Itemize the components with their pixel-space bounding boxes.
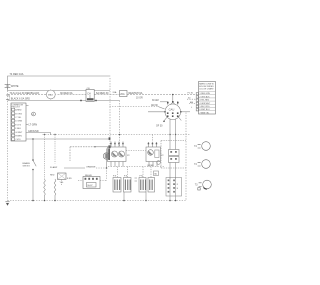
svg-text:J VIO: J VIO <box>15 139 21 141</box>
wire: LT GRN stub <box>26 124 28 126</box>
wire label 7A RED 10A <box>10 73 24 76</box>
svg-text:F N: F N <box>140 176 144 178</box>
regulator U3 <box>166 178 182 202</box>
wire label 10 OR <box>136 97 143 99</box>
svg-text:SW NO: SW NO <box>23 165 31 167</box>
wire: top red feed <box>8 76 111 91</box>
alternator M1 <box>46 89 57 100</box>
svg-text:MAG: MAG <box>48 94 53 97</box>
svg-text:RED: RED <box>50 175 55 177</box>
connector C2 <box>139 167 155 202</box>
wire: to brake switch <box>26 138 110 140</box>
svg-text:20A: 20A <box>120 93 125 96</box>
svg-text:WHITE: WHITE <box>11 85 19 88</box>
wire: vertical drop <box>109 78 111 146</box>
svg-text:F BLK: F BLK <box>15 128 21 130</box>
connector C1 <box>113 167 131 202</box>
battery label <box>11 85 19 88</box>
interlock module U1 <box>108 142 147 167</box>
svg-text:P1 30: P1 30 <box>188 93 194 95</box>
wire label <box>129 92 143 95</box>
svg-text:B ORG: B ORG <box>15 113 22 115</box>
svg-text:5 BLK ORG: 5 BLK ORG <box>200 106 211 108</box>
svg-text:AM 30: AM 30 <box>151 104 158 107</box>
diode M2 <box>103 149 109 169</box>
svg-text:LT GRN: LT GRN <box>29 124 38 127</box>
svg-text:RED/WH 6A: RED/WH 6A <box>129 92 143 95</box>
wire: second feed <box>8 90 111 92</box>
wire: ground run <box>26 133 51 136</box>
wire: harness dashed box right <box>161 141 186 169</box>
wire: dashed harness feed <box>8 94 47 96</box>
svg-text:CAU: CAU <box>169 108 175 112</box>
svg-text:OF 30: OF 30 <box>156 125 163 127</box>
wire: solenoid K1 stub <box>61 180 63 186</box>
svg-text:D GRN: D GRN <box>15 121 22 123</box>
junction block <box>108 145 110 148</box>
key switch S1 <box>148 94 190 122</box>
svg-text:30 AMP: 30 AMP <box>50 166 58 169</box>
fuse F2 <box>154 171 159 176</box>
wire: table stub <box>26 105 29 107</box>
svg-text:A: A <box>32 112 34 116</box>
svg-text:4 GRN WHT: 4 GRN WHT <box>200 103 211 105</box>
junction <box>80 100 82 102</box>
svg-text:30 AM: 30 AM <box>152 99 159 102</box>
svg-text:G WHT: G WHT <box>15 132 23 134</box>
legend connector J2 <box>188 82 216 115</box>
wire label B RED <box>148 165 155 167</box>
svg-text:A RED: A RED <box>15 109 22 112</box>
svg-text:CH: CH <box>87 94 91 96</box>
svg-text:6A RED 30: 6A RED 30 <box>96 92 109 95</box>
relay K2 <box>78 168 107 189</box>
fuel solenoid K1 <box>50 166 72 180</box>
svg-text:2 BLACK 6 GA GRD: 2 BLACK 6 GA GRD <box>9 97 30 100</box>
battery B1 <box>5 84 11 87</box>
svg-text:3 YEL RED: 3 YEL RED <box>200 100 210 102</box>
svg-text:C YEL: C YEL <box>15 117 22 119</box>
wire: harness dashed box top <box>70 146 95 148</box>
wire: switch feed dashed <box>110 106 159 108</box>
resistor wire W2 <box>54 135 64 201</box>
svg-text:GROUND: GROUND <box>28 130 39 133</box>
fuse F1 <box>120 91 128 97</box>
hour meter M3 <box>157 161 161 165</box>
svg-text:1 RED GRN: 1 RED GRN <box>200 93 211 95</box>
wire label <box>10 92 40 95</box>
svg-text:7A 6-4 GA 30 RED/BLACK: 7A 6-4 GA 30 RED/BLACK <box>10 92 40 95</box>
svg-text:COLOR CHART: COLOR CHART <box>199 87 214 90</box>
relay module U2 <box>146 135 161 167</box>
wire: battery output <box>8 100 120 102</box>
svg-text:AM: AM <box>190 101 193 104</box>
svg-text:7 BRN YEL: 7 BRN YEL <box>200 112 210 114</box>
wire: vertical drop <box>119 101 121 147</box>
wire: left rail <box>7 88 9 201</box>
svg-text:6 WHT BLU: 6 WHT BLU <box>200 109 211 111</box>
junction <box>119 134 121 136</box>
node 2 label <box>9 95 11 98</box>
node A <box>32 112 36 116</box>
svg-text:F N: F N <box>113 176 117 178</box>
lamp L1 <box>194 142 210 151</box>
connector J1 pin table <box>11 103 26 141</box>
svg-text:74 RED 10A: 74 RED 10A <box>10 73 24 76</box>
wire label <box>60 92 73 95</box>
wire: switch output verticals <box>170 119 176 150</box>
svg-text:10 OR: 10 OR <box>136 97 143 99</box>
svg-text:H BRN: H BRN <box>15 136 22 138</box>
wire: right return dashed <box>185 113 187 201</box>
wire label 20A <box>113 91 117 94</box>
resistor wire W1 <box>44 135 46 201</box>
wire: lower dashed rail <box>108 166 165 168</box>
lamp L2 <box>194 160 210 169</box>
svg-text:ORANGE: ORANGE <box>86 166 96 169</box>
ground G1 <box>5 202 9 206</box>
wire: relay feed <box>64 167 85 169</box>
svg-text:F N: F N <box>124 176 128 178</box>
starter M4 <box>195 180 212 190</box>
circuit breaker CB1 <box>86 88 94 102</box>
wire label <box>96 92 109 95</box>
svg-text:2 ORG BLK: 2 ORG BLK <box>200 96 211 98</box>
connector P2 <box>161 150 179 163</box>
svg-text:BRAKE: BRAKE <box>23 162 31 165</box>
svg-text:B RD: B RD <box>67 178 72 180</box>
junction <box>95 100 97 102</box>
node marks <box>135 178 138 181</box>
wire: OF 30 stub <box>156 125 163 127</box>
brake switch S2 <box>23 139 37 201</box>
svg-text:30 RED 6A: 30 RED 6A <box>60 92 73 95</box>
svg-text:B RED: B RED <box>148 165 155 167</box>
wire: main dashed rail <box>43 134 191 136</box>
wire: legend stubs <box>187 98 196 100</box>
svg-text:30-87: 30-87 <box>87 185 93 187</box>
wire: bottom ground rail <box>8 200 187 202</box>
svg-text:E LTG: E LTG <box>15 124 21 126</box>
svg-text:20A: 20A <box>113 91 117 94</box>
